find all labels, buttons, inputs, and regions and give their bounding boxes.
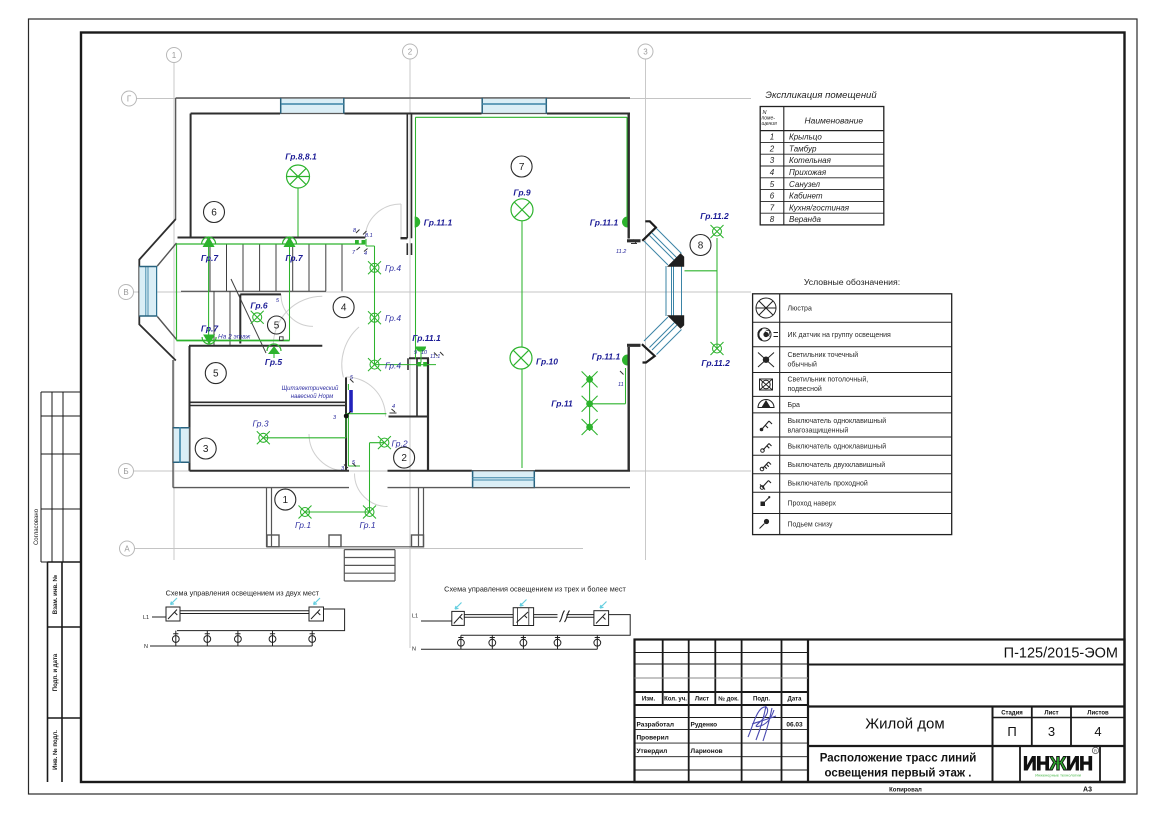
svg-text:Кол. уч.: Кол. уч. (664, 697, 687, 703)
svg-text:8: 8 (770, 215, 775, 224)
svg-text:4: 4 (392, 404, 395, 410)
svg-text:3: 3 (203, 444, 209, 455)
svg-text:Дата: Дата (788, 697, 803, 703)
svg-text:Гр.11.2: Гр.11.2 (700, 211, 729, 221)
svg-text:6: 6 (211, 208, 217, 219)
svg-text:Гр.8,8.1: Гр.8,8.1 (285, 152, 317, 162)
svg-text:Выключатель одноклавишный: Выключатель одноклавишный (788, 443, 887, 451)
svg-text:10: 10 (421, 350, 428, 356)
svg-text:11.1: 11.1 (430, 354, 440, 360)
svg-text:Ларионов: Ларионов (691, 748, 723, 755)
svg-text:Схема управления освещением из: Схема управления освещением из двух мест (166, 589, 320, 598)
svg-text:Гр.5: Гр.5 (265, 357, 283, 367)
svg-text:Гр.4: Гр.4 (385, 361, 401, 371)
svg-text:Руденко: Руденко (691, 721, 718, 728)
svg-text:5: 5 (770, 180, 775, 189)
svg-text:А: А (124, 545, 130, 554)
svg-text:П-125/2015-ЭОМ: П-125/2015-ЭОМ (1004, 646, 1118, 662)
svg-text:обычный: обычный (788, 361, 817, 369)
svg-text:3: 3 (770, 156, 775, 165)
svg-text:Тамбур: Тамбур (789, 144, 817, 153)
svg-text:На 2 этаж: На 2 этаж (218, 334, 251, 341)
svg-text:Крыльцо: Крыльцо (789, 133, 822, 142)
svg-text:Листов: Листов (1087, 711, 1109, 717)
svg-text:L1: L1 (412, 614, 418, 620)
svg-text:Инженерные технологии: Инженерные технологии (1035, 773, 1081, 778)
svg-text:Гр.1: Гр.1 (295, 520, 311, 530)
svg-text:Гр.7: Гр.7 (285, 253, 304, 263)
svg-text:Светильник потолочный,: Светильник потолочный, (788, 376, 869, 384)
svg-text:3: 3 (1048, 724, 1055, 739)
svg-text:6: 6 (770, 192, 775, 201)
svg-text:Гр.11.1: Гр.11.1 (412, 333, 441, 343)
svg-text:Санузел: Санузел (789, 180, 821, 189)
svg-text:Гр.7: Гр.7 (201, 324, 220, 334)
svg-text:3: 3 (643, 48, 648, 57)
svg-text:Г: Г (127, 95, 132, 104)
svg-text:А3: А3 (1083, 787, 1092, 794)
svg-text:Гр.9: Гр.9 (513, 188, 531, 198)
svg-text:подвесной: подвесной (788, 385, 822, 393)
svg-text:7: 7 (770, 203, 775, 212)
svg-text:4: 4 (770, 168, 775, 177)
svg-text:2: 2 (401, 453, 407, 464)
svg-text:4: 4 (364, 251, 367, 257)
svg-text:11.2: 11.2 (616, 249, 626, 255)
svg-text:№ док.: № док. (718, 696, 739, 703)
svg-text:Кабинет: Кабинет (789, 192, 823, 201)
svg-text:Утвердил: Утвердил (637, 748, 668, 755)
svg-text:Гр.11.2: Гр.11.2 (701, 358, 730, 368)
svg-text:1: 1 (172, 51, 177, 60)
svg-text:Гр.1: Гр.1 (360, 520, 376, 530)
svg-text:Прихожая: Прихожая (789, 168, 827, 177)
svg-text:В: В (123, 288, 128, 297)
svg-text:П: П (1007, 724, 1016, 739)
svg-text:Наименование: Наименование (804, 116, 863, 126)
svg-text:Изм.: Изм. (642, 697, 656, 703)
svg-text:8.1: 8.1 (365, 233, 373, 239)
svg-text:L1: L1 (143, 615, 149, 621)
svg-text:06.03: 06.03 (786, 721, 803, 728)
svg-text:Гр.4: Гр.4 (385, 313, 401, 323)
svg-text:Проход наверх: Проход наверх (788, 501, 837, 508)
svg-text:Разработал: Разработал (637, 720, 675, 728)
svg-text:8: 8 (698, 241, 704, 252)
svg-text:11: 11 (618, 382, 624, 388)
svg-text:освещения первый этаж .: освещения первый этаж . (825, 768, 972, 780)
svg-text:Взам. инв. №: Взам. инв. № (52, 575, 59, 615)
svg-text:щения: щения (762, 121, 778, 127)
svg-text:1: 1 (283, 495, 289, 506)
svg-text:9: 9 (414, 350, 417, 356)
svg-text:4: 4 (1094, 724, 1101, 739)
svg-text:Расположение трасс линий: Расположение трасс линий (820, 753, 977, 765)
svg-text:Выключатель проходной: Выключатель проходной (788, 480, 868, 488)
svg-text:Щитэлектрический: Щитэлектрический (282, 385, 339, 392)
svg-text:влагозащищенный: влагозащищенный (788, 427, 849, 435)
svg-text:5: 5 (274, 320, 280, 331)
svg-text:Жилой дом: Жилой дом (865, 716, 944, 733)
svg-text:Гр.3: Гр.3 (253, 419, 269, 429)
svg-text:4: 4 (341, 303, 347, 314)
svg-text:Копировал: Копировал (889, 788, 922, 794)
svg-text:Гр.7: Гр.7 (201, 253, 220, 263)
svg-text:Подп.: Подп. (753, 697, 770, 703)
svg-text:Котельная: Котельная (789, 156, 832, 165)
svg-text:Проверил: Проверил (637, 735, 669, 742)
svg-text:2: 2 (769, 144, 775, 153)
svg-text:1: 1 (770, 133, 774, 142)
svg-text:Лист: Лист (1044, 711, 1058, 717)
svg-text:ИК датчик на группу освещения: ИК датчик на группу освещения (788, 332, 892, 339)
svg-text:Светильник точечный: Светильник точечный (788, 351, 859, 359)
svg-text:Люстра: Люстра (788, 306, 812, 313)
svg-text:Бра: Бра (788, 402, 800, 409)
svg-text:Подп. и дата: Подп. и дата (53, 653, 59, 691)
svg-text:Б: Б (123, 467, 128, 476)
svg-text:навесной Норм: навесной Норм (291, 393, 334, 400)
svg-text:5: 5 (213, 369, 219, 380)
svg-text:Выключатель двухклавишный: Выключатель двухклавишный (788, 461, 886, 469)
svg-text:Гр.11.1: Гр.11.1 (592, 352, 621, 362)
svg-text:Гр.11: Гр.11 (551, 399, 573, 409)
svg-text:Гр.11.1: Гр.11.1 (424, 218, 453, 228)
svg-text:Выключатель одноклавишный: Выключатель одноклавишный (788, 417, 887, 425)
svg-text:Экспликация помещений: Экспликация помещений (765, 90, 877, 101)
svg-text:7: 7 (519, 162, 525, 173)
svg-text:Гр.11.1: Гр.11.1 (590, 218, 619, 228)
svg-text:Кухня/гостиная: Кухня/гостиная (789, 203, 850, 212)
svg-text:Лист: Лист (695, 697, 709, 703)
svg-text:Инв. № подл.: Инв. № подл. (52, 730, 59, 770)
svg-text:Веранда: Веранда (789, 215, 822, 224)
svg-text:Гр.10: Гр.10 (536, 357, 558, 367)
svg-text:Условные обозначения:: Условные обозначения: (804, 277, 900, 287)
svg-text:Подьем снизу: Подьем снизу (788, 522, 834, 529)
svg-text:2: 2 (408, 48, 413, 57)
svg-text:Гр.4: Гр.4 (385, 263, 401, 273)
svg-text:Стадия: Стадия (1001, 711, 1023, 717)
svg-text:Гр.6: Гр.6 (250, 301, 268, 311)
svg-text:N: N (412, 647, 416, 653)
svg-text:Согласовано: Согласовано (34, 508, 40, 545)
svg-text:Схема управления освещением из: Схема управления освещением из трех и бо… (444, 585, 626, 594)
svg-text:N: N (144, 644, 148, 650)
